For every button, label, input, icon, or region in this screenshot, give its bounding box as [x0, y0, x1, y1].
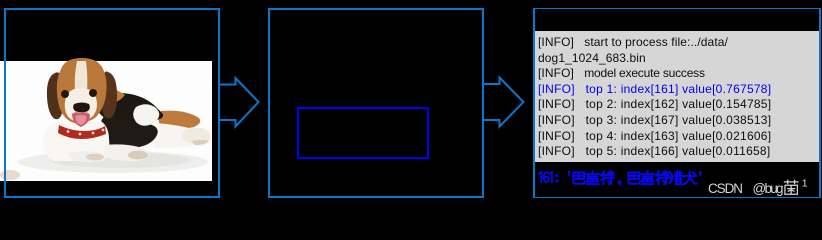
svg-text:@bug: @bug: [753, 181, 784, 196]
neck/back tan strip: [95, 87, 125, 105]
arrow 2: [484, 78, 524, 127]
muzzle white: [65, 88, 97, 121]
shadow: [18, 151, 208, 173]
photo white background: [0, 58, 212, 181]
mouth/tongue: [72, 112, 90, 127]
left ear: [47, 72, 63, 119]
collar: [58, 125, 106, 139]
arrow 1: [220, 78, 259, 127]
hind paw: [181, 128, 210, 144]
inner model rect: [298, 108, 428, 158]
eyes: [61, 90, 69, 98]
closing apostrophe: [699, 171, 702, 176]
特 2: [656, 171, 669, 184]
digit 1: [539, 172, 542, 182]
box 1 (input image box): [5, 9, 219, 197]
console interior: [535, 9, 819, 197]
巴 2: [628, 173, 639, 184]
nose: [73, 103, 90, 113]
dog drawing: [0, 58, 211, 180]
apostrophe: [568, 171, 571, 176]
right ear: [102, 71, 117, 118]
box 2 (model box): [269, 9, 483, 197]
犬: [683, 171, 696, 184]
digit 6: [544, 172, 549, 182]
white blaze: [75, 61, 88, 91]
菌 glyph: [784, 180, 799, 195]
digit 1: [549, 172, 552, 182]
comma: [618, 181, 622, 186]
left front paw: [0, 170, 20, 180]
猎: [669, 171, 682, 184]
塞 2: [641, 171, 653, 184]
head tan: [57, 58, 107, 123]
black thigh patch: [98, 115, 158, 148]
chest & front legs white: [43, 121, 110, 161]
rear tan patch: [159, 111, 201, 129]
塞 1: [586, 171, 598, 184]
hind leg white: [153, 123, 211, 148]
white hip patch: [133, 104, 159, 126]
box 3 (console box): [534, 9, 820, 197]
svg-text:CSDN: CSDN: [708, 181, 743, 196]
colon: [556, 174, 559, 182]
body black saddle: [97, 93, 163, 123]
front paws: [104, 144, 149, 161]
巴 1: [573, 173, 584, 184]
特 1: [601, 171, 614, 184]
svg-text:1: 1: [802, 178, 808, 190]
